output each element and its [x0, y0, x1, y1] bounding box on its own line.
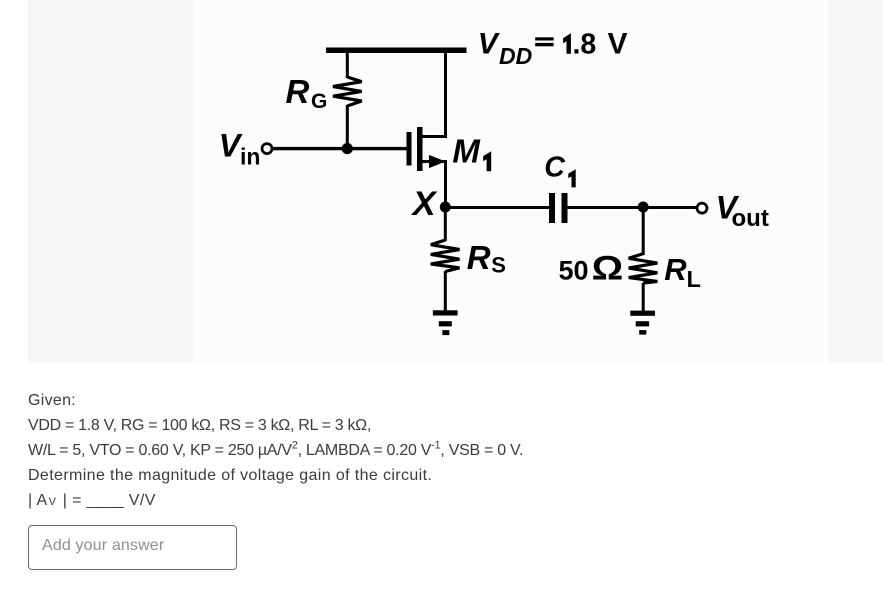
resistor RG [333, 77, 362, 106]
ground RS [433, 310, 458, 315]
terminal Vout [697, 203, 707, 213]
svg-text:in: in [240, 144, 260, 170]
svg-text:R: R [286, 73, 310, 110]
svg-text:Ω: Ω [592, 249, 624, 287]
label C1 [544, 152, 576, 188]
gray image container [28, 0, 883, 363]
terminal Vin [262, 144, 272, 154]
svg-text:R: R [467, 239, 491, 276]
label M1 [452, 132, 491, 171]
wire source horizontal [423, 160, 448, 163]
wire Vin to gate [272, 147, 407, 150]
wire RS top [444, 207, 447, 241]
question text [28, 388, 523, 515]
svg-text:X: X [411, 185, 438, 223]
node X [440, 202, 451, 213]
svg-text:V: V [608, 28, 628, 61]
wire RG bottom [346, 105, 349, 149]
svg-text:S: S [491, 253, 506, 278]
label RG [286, 73, 328, 113]
label RL [664, 252, 701, 292]
wire drain horizontal [423, 135, 448, 138]
svg-text:50: 50 [559, 256, 589, 286]
answer input [28, 525, 237, 570]
node gate junction [342, 143, 353, 154]
label VDD = 1.8 V [478, 28, 628, 69]
svg-text:.8: .8 [573, 29, 597, 61]
transistor M1 gate bar [407, 132, 412, 166]
svg-text:G: G [311, 90, 327, 113]
node out [638, 202, 649, 213]
arrow source [429, 155, 446, 168]
wire RL top [642, 207, 645, 255]
svg-text:V: V [478, 28, 501, 61]
svg-text:M: M [452, 132, 481, 169]
label 50 ohm [559, 249, 624, 287]
label RS [467, 239, 506, 277]
ground RL [630, 311, 655, 316]
label Vout [716, 189, 769, 232]
wire RG top [346, 53, 349, 78]
resistor RS [431, 240, 460, 272]
transistor M1 channel bar [417, 127, 423, 171]
schematic image [0, 0, 883, 363]
wire C1 to Vout [568, 206, 697, 209]
wire source vertical [444, 162, 447, 208]
svg-text:R: R [664, 252, 687, 287]
wire RL bottom [642, 283, 645, 312]
svg-text:out: out [732, 205, 769, 232]
capacitor C1 plates [549, 193, 555, 223]
svg-text:DD: DD [499, 43, 532, 69]
wire drain vertical [444, 53, 447, 138]
svg-text:C: C [544, 152, 565, 184]
svg-text:L: L [687, 266, 701, 292]
label Vin [219, 128, 261, 170]
svg-text:V: V [219, 128, 243, 164]
resistor RL [629, 254, 658, 283]
VDD rail [326, 48, 467, 54]
wire X to C1 [445, 206, 549, 209]
wire RS bottom [444, 271, 447, 311]
